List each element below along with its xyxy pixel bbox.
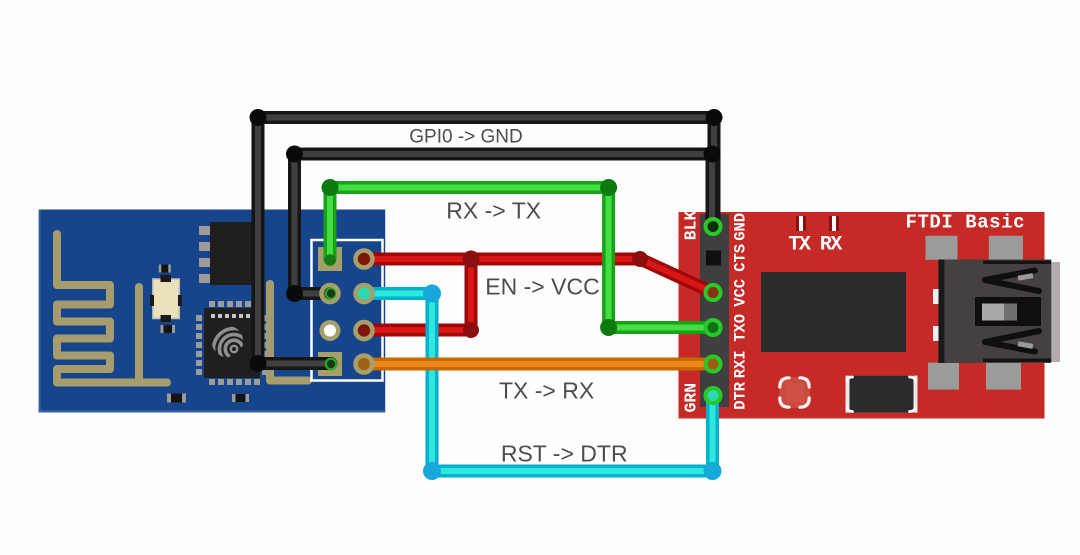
- svg-text:VCC: VCC: [732, 279, 750, 307]
- svg-text:TXO: TXO: [732, 314, 750, 342]
- svg-text:TX -> RX: TX -> RX: [499, 377, 594, 403]
- svg-text:CTS: CTS: [732, 244, 750, 272]
- svg-text:DTR: DTR: [732, 381, 750, 410]
- svg-text:GPI0 -> GND: GPI0 -> GND: [409, 127, 523, 148]
- svg-text:RXI: RXI: [732, 350, 750, 378]
- svg-text:FTDI Basic: FTDI Basic: [906, 212, 1026, 234]
- svg-text:RST -> DTR: RST -> DTR: [501, 441, 628, 467]
- svg-text:GND: GND: [732, 213, 750, 241]
- svg-text:TX RX: TX RX: [788, 234, 842, 257]
- svg-text:RX -> TX: RX -> TX: [446, 197, 541, 223]
- svg-text:GRN: GRN: [682, 383, 701, 413]
- svg-text:BLK: BLK: [682, 210, 701, 240]
- svg-text:EN -> VCC: EN -> VCC: [485, 273, 599, 299]
